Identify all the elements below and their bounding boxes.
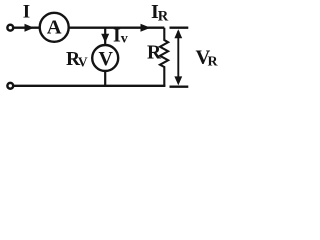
resistor R (zigzag branch) (160, 28, 168, 86)
arrow: current I_v into voltmeter (101, 34, 109, 43)
svg-text:VR: VR (196, 46, 219, 69)
svg-text:RV: RV (66, 49, 88, 70)
svg-text:IR: IR (151, 1, 169, 25)
svg-text:I: I (23, 2, 30, 23)
svg-text:V: V (98, 48, 113, 70)
arrow: current I_R on top rail (141, 24, 151, 32)
V_R dimension: bottom cap bar (170, 86, 189, 88)
arrow: input current I on top rail (25, 24, 35, 32)
V_R dimension: down arrowhead (174, 76, 182, 85)
svg-text:R: R (147, 42, 162, 63)
V_R dimension: top cap bar (170, 27, 189, 29)
wire: top rail from left terminal, corner into resistor branch (13, 27, 164, 29)
wire: voltmeter branch bottom (104, 71, 106, 86)
ammeter A (40, 13, 69, 42)
V_R dimension: vertical line (177, 31, 179, 83)
wire: voltmeter branch top (104, 28, 106, 46)
V_R dimension: up arrowhead (174, 29, 182, 38)
wire: bottom rail from left terminal to resistor branch (13, 85, 165, 87)
svg-text:A: A (47, 17, 62, 39)
terminal: top-left input (7, 25, 13, 31)
voltmeter V (92, 45, 118, 71)
terminal: bottom-left input (7, 83, 13, 89)
